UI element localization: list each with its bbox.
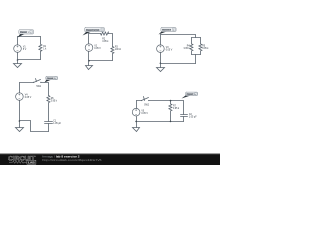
wire bottom C5 [137,121,184,123]
switch SW2 [141,97,149,102]
wire top-right C2 [109,34,113,47]
wire top-left C2 [89,33,101,35]
voltage source V1 [14,45,22,53]
resistor R7 [169,101,172,122]
svg-text:3.95 k: 3.95 k [51,101,58,103]
capacitor C2 [181,115,188,117]
annotation callout A1 [18,30,34,38]
svg-text:100 Ω: 100 Ω [115,49,121,51]
voltage source V2 [85,44,93,52]
svg-text:SW1: SW1 [36,86,42,88]
ground C4 [16,128,24,132]
wire left-top C1 [17,37,19,45]
wire bottom C1 [18,59,41,61]
wire top C3 [161,35,196,38]
svg-text:1.05 µF: 1.05 µF [53,123,61,125]
ground C2 [86,61,93,70]
label V2 value [94,46,101,51]
svg-text:SW2: SW2 [144,104,150,106]
resistor R5 [199,38,202,55]
svg-text:x: x [55,78,56,80]
svg-text:http://circuitlab.com/c/8qux44: http://circuitlab.com/c/8qux44bk7v5 [42,158,102,162]
switch SW1 [33,79,41,83]
wire right stem C3 [195,55,197,64]
resistor R6 [47,96,50,122]
junction C3 [160,63,162,65]
resistor R3 [111,47,114,61]
label R3 value [115,47,121,52]
voltage source V5 [132,108,140,116]
label R7 value [173,106,180,111]
wire top-right C4 [41,83,49,96]
label R2 value [102,38,109,43]
wire left C2 [88,34,90,44]
wire bottom staircase C4 [20,121,49,132]
wire bottom C2 [89,60,113,62]
label C2 value [189,114,197,119]
svg-text:LAB: LAB [28,161,35,165]
wire top-right C5 [149,101,184,115]
logo resistor zigzag [9,161,27,163]
ground C5 [133,128,140,132]
label R5 value [202,46,209,51]
junction C5 R7 top [170,100,172,102]
wire top-left C5 [137,100,142,102]
svg-text:3.95 k: 3.95 k [173,108,180,110]
svg-text:1.05 µF: 1.05 µF [189,117,197,119]
wire left-bottom C3 [160,53,162,64]
annotation callout A5 [182,92,198,98]
label V4 value [25,95,32,100]
wire left C3 [160,35,162,45]
label C1 value [53,121,61,126]
label R6 value [51,98,58,103]
ground C1 [14,60,22,68]
wire parallel bracket top C3 [192,37,201,39]
wire left-bottom C4 [19,101,21,128]
wire bottom C3 [161,63,196,65]
resistor R2 [101,32,109,35]
svg-text:0.05 V: 0.05 V [25,97,32,99]
svg-text:3.95 k: 3.95 k [183,48,190,50]
CircuitLab logo wordmark [8,155,102,165]
svg-text:x: x [195,94,196,96]
junction C1 [17,59,19,61]
wire left C5 [136,101,138,109]
logo LAB box [27,160,36,164]
svg-text:3.95 k: 3.95 k [202,48,209,50]
junction C5 R7 bottom [170,121,172,123]
junction C4 [19,120,21,122]
annotation callout A2 [83,28,105,36]
svg-text:0.05 V: 0.05 V [166,49,173,51]
wire left C4 [19,83,21,93]
wire left-bottom C5 [136,117,138,128]
wire top C1 [18,36,41,38]
annotation callout A3 [159,27,177,34]
junction C2 [88,60,90,62]
wire left-bottom C1 [17,53,19,60]
capacitor C1 [45,122,53,124]
ground C3 [157,64,165,72]
label R1 value [43,46,47,51]
voltage source V4 [16,93,24,101]
label V1 value [23,46,27,51]
wire capacitor-bottom C4 [48,124,50,132]
wire capacitor-bottom C5 [183,117,185,122]
svg-text:5 V: 5 V [23,49,27,51]
svg-text:0.05 V: 0.05 V [94,48,101,50]
voltage source V3 [157,45,165,53]
label V3 value [166,47,173,52]
wire left-bottom C2 [88,52,90,61]
junction C5 source [135,121,137,123]
wire top-left C4 [20,82,34,84]
svg-text:0.05 V: 0.05 V [141,113,148,115]
resistor R4 [190,38,193,55]
wire parallel bracket bottom C3 [192,54,201,56]
resistor R1 [39,37,42,60]
footer background [0,154,220,165]
label V5 value [141,110,148,115]
annotation callout A4 [45,76,58,82]
svg-text:3.95 k: 3.95 k [102,41,109,43]
label R4 value [183,46,190,51]
